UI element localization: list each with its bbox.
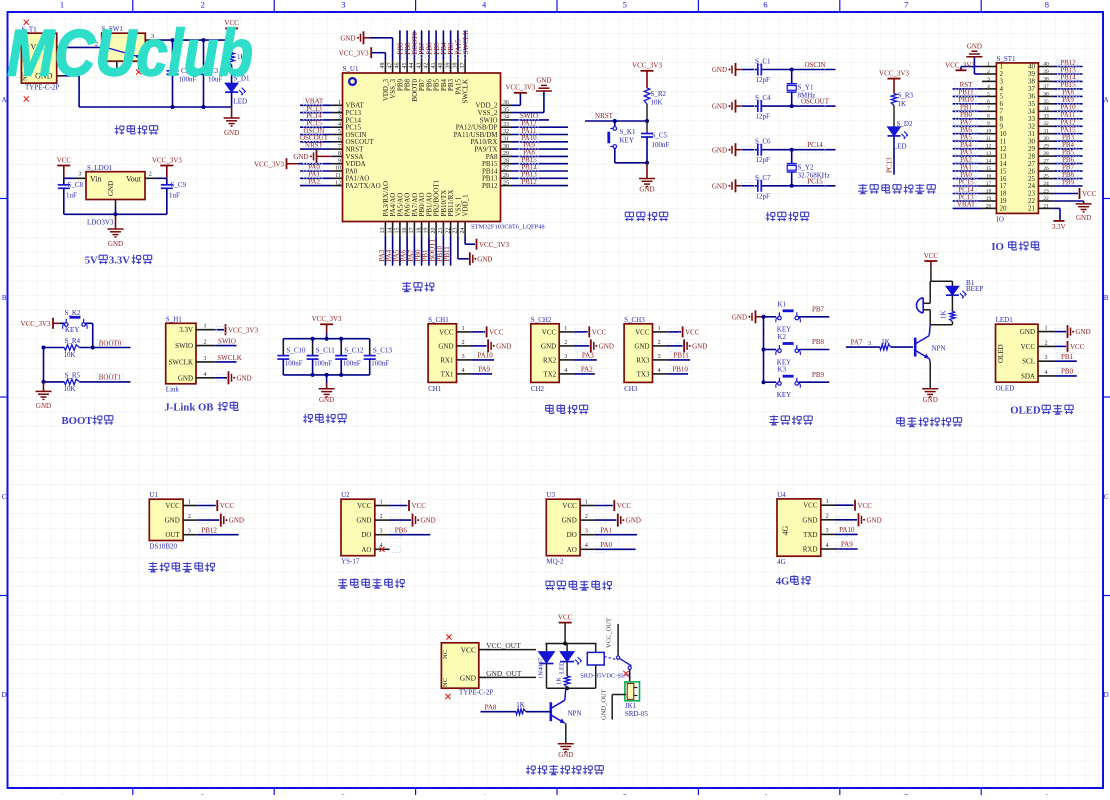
svg-text:40: 40 (1043, 61, 1049, 67)
svg-text:OSCIN: OSCIN (804, 61, 825, 69)
svg-text:3.3V: 3.3V (109, 255, 130, 267)
svg-text:S_C7: S_C7 (755, 174, 771, 182)
svg-text:2: 2 (585, 514, 588, 520)
svg-text:GND: GND (356, 517, 371, 525)
svg-text:45: 45 (402, 63, 408, 69)
svg-text:29: 29 (1043, 144, 1049, 150)
svg-text:VCC: VCC (1021, 343, 1036, 351)
svg-text:40: 40 (438, 63, 444, 69)
svg-text:RX1: RX1 (440, 356, 454, 364)
svg-text:OLED: OLED (997, 344, 1005, 363)
svg-text:35: 35 (1043, 99, 1049, 105)
svg-text:5: 5 (623, 0, 627, 10)
svg-text:PB0: PB0 (1061, 368, 1074, 376)
svg-text:25: 25 (1043, 174, 1049, 180)
svg-text:47: 47 (387, 63, 393, 69)
svg-text:GND: GND (541, 342, 556, 350)
svg-text:VCC: VCC (635, 328, 650, 336)
svg-text:GND: GND (558, 751, 573, 759)
svg-text:4: 4 (1045, 370, 1048, 376)
svg-text:VCC_3V3: VCC_3V3 (632, 62, 662, 70)
svg-text:VCC: VCC (439, 328, 454, 336)
svg-text:4: 4 (204, 372, 207, 378)
svg-text:1uF: 1uF (169, 192, 180, 200)
svg-text:RX2: RX2 (543, 356, 557, 364)
svg-text:PB1: PB1 (1061, 353, 1074, 361)
svg-text:VCC: VCC (685, 329, 700, 337)
svg-text:NC: NC (442, 678, 449, 687)
svg-text:100nF: 100nF (371, 360, 389, 368)
svg-text:VCC: VCC (924, 252, 939, 260)
svg-text:16: 16 (402, 228, 408, 234)
svg-text:2: 2 (826, 514, 829, 520)
svg-text:3: 3 (78, 171, 81, 178)
svg-text:VCC: VCC (558, 613, 573, 621)
svg-text:1: 1 (1045, 326, 1048, 332)
svg-text:1: 1 (204, 324, 207, 330)
svg-text:6: 6 (338, 137, 341, 143)
svg-text:S_R4: S_R4 (65, 337, 81, 345)
svg-text:TXD: TXD (803, 531, 817, 539)
svg-text:S_C9: S_C9 (171, 181, 187, 189)
svg-text:39: 39 (1043, 69, 1049, 75)
svg-text:GND: GND (319, 396, 334, 404)
svg-text:10: 10 (986, 129, 992, 135)
svg-text:1: 1 (585, 499, 588, 505)
svg-text:SRD-05: SRD-05 (625, 710, 648, 718)
svg-text:28: 28 (503, 158, 509, 164)
svg-text:PB12: PB12 (201, 526, 217, 534)
svg-text:CH2: CH2 (531, 385, 545, 393)
svg-text:PA2: PA2 (308, 178, 320, 186)
svg-text:1: 1 (826, 499, 829, 505)
svg-text:PB8: PB8 (812, 338, 825, 346)
svg-text:14: 14 (387, 228, 393, 234)
svg-text:U3: U3 (546, 491, 555, 499)
svg-text:A: A (1104, 96, 1109, 104)
svg-text:KEY: KEY (777, 391, 791, 399)
svg-text:U4: U4 (777, 491, 786, 499)
svg-text:PA0: PA0 (600, 541, 612, 549)
svg-text:8: 8 (987, 114, 990, 120)
svg-text:1: 1 (60, 0, 64, 10)
svg-text:3: 3 (658, 354, 661, 360)
svg-text:2: 2 (149, 171, 152, 178)
svg-text:17: 17 (986, 181, 992, 187)
svg-text:GND: GND (496, 343, 511, 351)
svg-text:J-Link OB: J-Link OB (164, 402, 213, 414)
svg-text:3: 3 (585, 529, 588, 535)
svg-text:27: 27 (1043, 159, 1049, 165)
svg-text:34: 34 (1043, 106, 1049, 112)
svg-text:PA3: PA3 (582, 352, 594, 360)
svg-text:7: 7 (338, 144, 341, 150)
svg-text:8: 8 (1045, 0, 1049, 10)
svg-text:S_C4: S_C4 (755, 94, 771, 102)
svg-text:8MHz: 8MHz (798, 92, 816, 100)
svg-text:IO: IO (991, 241, 1003, 253)
svg-text:PA2: PA2 (581, 366, 593, 374)
svg-text:GND: GND (712, 146, 727, 154)
svg-text:3: 3 (826, 528, 829, 534)
svg-text:MQ-2: MQ-2 (546, 558, 564, 566)
svg-text:11: 11 (335, 173, 341, 179)
svg-text:PB7: PB7 (812, 306, 825, 314)
svg-text:1N4007: 1N4007 (538, 657, 545, 679)
svg-text:CH1: CH1 (428, 385, 442, 393)
svg-text:KEY: KEY (65, 326, 79, 334)
svg-text:22: 22 (445, 228, 451, 234)
svg-text:2: 2 (204, 340, 207, 346)
svg-text:S_CH1: S_CH1 (428, 316, 449, 324)
svg-text:AO: AO (361, 546, 371, 554)
svg-text:36: 36 (503, 100, 509, 106)
svg-text:PA10: PA10 (839, 526, 855, 534)
svg-text:Vin: Vin (90, 174, 102, 183)
svg-text:GND: GND (108, 240, 123, 248)
svg-text:PA8: PA8 (485, 703, 497, 711)
svg-text:VCC: VCC (858, 502, 873, 510)
svg-text:4: 4 (987, 84, 990, 90)
svg-text:30: 30 (503, 144, 509, 150)
svg-text:PB11: PB11 (443, 246, 451, 262)
svg-text:26: 26 (503, 173, 509, 179)
svg-text:9: 9 (987, 121, 990, 127)
svg-text:VCC: VCC (220, 502, 235, 510)
svg-text:12: 12 (986, 144, 992, 150)
svg-text:12: 12 (335, 180, 341, 186)
svg-text:4: 4 (658, 368, 661, 374)
svg-text:24: 24 (1043, 181, 1049, 187)
svg-text:PB10: PB10 (672, 366, 688, 374)
svg-text:BOOT1: BOOT1 (99, 374, 122, 382)
svg-text:GND_OUT: GND_OUT (486, 669, 522, 678)
svg-text:12pF: 12pF (756, 76, 771, 84)
svg-text:1uF: 1uF (66, 192, 77, 200)
svg-text:39: 39 (445, 63, 451, 69)
svg-text:GND: GND (477, 255, 492, 263)
svg-text:JK1: JK1 (625, 702, 637, 710)
svg-text:SCL: SCL (1022, 358, 1035, 366)
svg-text:12pF: 12pF (756, 113, 771, 121)
svg-text:RX3: RX3 (636, 356, 650, 364)
svg-text:GND: GND (639, 186, 654, 194)
svg-text:33: 33 (1043, 114, 1049, 120)
svg-text:S_CH3: S_CH3 (624, 316, 645, 324)
svg-text:19: 19 (424, 228, 430, 234)
svg-text:VCC_3V3: VCC_3V3 (505, 84, 535, 92)
svg-text:5: 5 (987, 91, 990, 97)
svg-text:GND: GND (293, 153, 308, 161)
svg-text:27: 27 (503, 166, 509, 172)
svg-text:2: 2 (658, 340, 661, 346)
svg-text:U1: U1 (149, 491, 158, 499)
svg-text:5: 5 (338, 129, 341, 135)
svg-text:VCC: VCC (1082, 190, 1097, 198)
svg-text:GND: GND (967, 42, 982, 50)
svg-text:GND: GND (692, 343, 707, 351)
svg-text:GND: GND (421, 517, 436, 525)
svg-text:GND: GND (712, 182, 727, 190)
svg-text:32: 32 (503, 129, 509, 135)
svg-text:12pF: 12pF (756, 192, 771, 200)
svg-text:37: 37 (1043, 84, 1049, 90)
svg-text:Vout: Vout (126, 174, 142, 183)
svg-text:6: 6 (763, 0, 767, 10)
svg-text:18: 18 (416, 228, 422, 234)
svg-text:4: 4 (585, 543, 588, 549)
svg-text:VCC_3V3: VCC_3V3 (312, 315, 342, 323)
svg-text:VCC: VCC (592, 329, 607, 337)
svg-text:43: 43 (416, 63, 422, 69)
svg-text:8: 8 (338, 151, 341, 157)
svg-text:1: 1 (188, 499, 191, 505)
svg-text:1: 1 (380, 499, 383, 505)
svg-text:PA7: PA7 (851, 339, 863, 347)
svg-text:5V: 5V (85, 255, 98, 267)
svg-text:21: 21 (1028, 205, 1036, 213)
svg-text:2: 2 (338, 107, 341, 113)
svg-text:VCC: VCC (617, 502, 632, 510)
svg-text:PB9: PB9 (1062, 178, 1075, 186)
svg-text:100nF: 100nF (652, 141, 670, 149)
svg-text:LED: LED (234, 98, 248, 106)
svg-text:NPN: NPN (568, 710, 582, 718)
svg-text:DS18B20: DS18B20 (149, 543, 177, 551)
svg-text:S_C13: S_C13 (373, 347, 393, 355)
svg-text:D: D (1104, 691, 1109, 699)
svg-text:2: 2 (201, 0, 205, 10)
svg-text:K3: K3 (778, 366, 787, 374)
svg-text:PB6: PB6 (395, 526, 408, 534)
svg-text:2: 2 (462, 340, 465, 346)
svg-text:100nF: 100nF (314, 360, 332, 368)
svg-text:RXD: RXD (803, 546, 818, 554)
svg-text:1: 1 (987, 61, 990, 67)
svg-text:20: 20 (986, 203, 992, 209)
svg-text:OLED: OLED (1010, 405, 1041, 417)
svg-text:S_CH2: S_CH2 (531, 316, 552, 324)
svg-text:VCC_3V3: VCC_3V3 (254, 160, 284, 168)
svg-text:S_C11: S_C11 (316, 347, 335, 355)
svg-text:VCC: VCC (489, 329, 504, 337)
svg-text:VDD_1: VDD_1 (462, 194, 470, 217)
svg-text:3: 3 (188, 529, 191, 535)
svg-text:100nF: 100nF (343, 360, 361, 368)
svg-text:4G: 4G (776, 576, 790, 588)
svg-text:PA9: PA9 (478, 366, 490, 374)
svg-text:23: 23 (453, 228, 459, 234)
svg-text:35: 35 (503, 107, 509, 113)
svg-text:1K: 1K (940, 310, 948, 319)
svg-text:3: 3 (987, 76, 990, 82)
svg-text:LED: LED (893, 143, 907, 151)
svg-text:38: 38 (1043, 76, 1049, 82)
svg-text:OLED: OLED (996, 384, 1015, 392)
svg-text:PB9: PB9 (812, 371, 825, 379)
svg-text:SWCLK: SWCLK (217, 354, 242, 362)
svg-text:10K: 10K (651, 99, 663, 107)
svg-text:GND: GND (237, 374, 252, 382)
svg-text:34: 34 (503, 115, 509, 121)
svg-text:20: 20 (431, 228, 437, 234)
svg-text:VCC_3V3: VCC_3V3 (879, 69, 909, 77)
svg-text:36: 36 (1043, 91, 1049, 97)
svg-text:VCC: VCC (562, 502, 577, 510)
svg-text:10: 10 (335, 166, 341, 172)
svg-text:10K: 10K (64, 351, 76, 359)
svg-text:16: 16 (986, 174, 992, 180)
svg-text:10K: 10K (64, 385, 76, 393)
svg-text:C: C (1104, 493, 1109, 501)
svg-text:2: 2 (564, 340, 567, 346)
svg-text:TX2: TX2 (543, 370, 556, 378)
svg-text:30: 30 (1043, 136, 1049, 142)
svg-text:17: 17 (409, 228, 415, 234)
svg-text:GND: GND (1020, 328, 1035, 336)
svg-text:GND: GND (712, 66, 727, 74)
svg-text:MCUclub: MCUclub (7, 16, 253, 90)
svg-text:AO: AO (567, 546, 577, 554)
svg-text:PB12: PB12 (482, 182, 498, 190)
svg-text:GND: GND (107, 181, 115, 196)
svg-text:IO: IO (997, 216, 1004, 224)
svg-text:S_LDO1: S_LDO1 (87, 164, 113, 172)
svg-text:PA10: PA10 (477, 352, 493, 360)
svg-text:VCC: VCC (357, 502, 372, 510)
svg-text:PB11: PB11 (673, 352, 689, 360)
svg-text:GND: GND (802, 516, 817, 524)
svg-text:31: 31 (1043, 129, 1049, 135)
svg-text:23: 23 (1043, 188, 1049, 194)
svg-text:BOOT: BOOT (62, 415, 93, 427)
svg-text:2: 2 (380, 514, 383, 520)
svg-text:LED: LED (559, 661, 566, 674)
svg-text:24: 24 (460, 228, 466, 234)
svg-text:4: 4 (564, 368, 567, 374)
svg-text:29: 29 (503, 151, 509, 157)
svg-text:YS-17: YS-17 (341, 558, 360, 566)
svg-text:3: 3 (380, 529, 383, 535)
svg-text:VCC: VCC (1070, 343, 1085, 351)
svg-text:PC14: PC14 (807, 141, 823, 149)
svg-text:1: 1 (338, 100, 341, 106)
svg-text:4: 4 (826, 543, 829, 549)
svg-text:3: 3 (1045, 355, 1048, 361)
svg-text:VCC: VCC (165, 502, 180, 510)
svg-text:KEY: KEY (620, 137, 634, 145)
svg-text:3: 3 (868, 340, 871, 347)
svg-text:B: B (1104, 294, 1109, 302)
svg-text:GND: GND (536, 77, 551, 85)
svg-text:GND: GND (165, 517, 180, 525)
svg-text:STM32F103C8T6_LQFP48: STM32F103C8T6_LQFP48 (471, 224, 545, 231)
svg-text:1K: 1K (898, 100, 907, 108)
svg-text:C: C (2, 493, 7, 501)
svg-text:A: A (2, 96, 7, 104)
svg-text:3: 3 (338, 115, 341, 121)
svg-text:1K: 1K (516, 701, 525, 709)
svg-text:32.768KHz: 32.768KHz (798, 172, 830, 180)
svg-text:VCC_3V3: VCC_3V3 (479, 241, 509, 249)
svg-text:2: 2 (1045, 340, 1048, 346)
svg-text:GND: GND (229, 517, 244, 525)
svg-text:NRST: NRST (305, 141, 324, 149)
svg-text:37: 37 (460, 63, 466, 69)
svg-text:28: 28 (1043, 151, 1049, 157)
svg-text:31: 31 (503, 137, 509, 143)
svg-text:BOOT0: BOOT0 (99, 339, 122, 347)
svg-text:2: 2 (987, 69, 990, 75)
svg-text:BEEP: BEEP (966, 285, 983, 293)
svg-text:1: 1 (564, 326, 567, 332)
svg-text:S_R5: S_R5 (65, 372, 81, 380)
svg-text:9: 9 (338, 158, 341, 164)
svg-text:PC13: PC13 (885, 157, 893, 173)
svg-text:13: 13 (380, 228, 386, 234)
svg-text:S_C6: S_C6 (755, 138, 771, 146)
svg-text:LED1: LED1 (996, 316, 1014, 324)
svg-text:21: 21 (1043, 203, 1049, 209)
svg-text:VCC: VCC (461, 645, 476, 654)
svg-text:SWIO: SWIO (218, 338, 236, 346)
svg-text:VCC_3V3: VCC_3V3 (228, 326, 258, 334)
svg-text:13: 13 (986, 151, 992, 157)
svg-text:OUT: OUT (165, 531, 180, 539)
svg-text:38: 38 (453, 63, 459, 69)
svg-text:GND: GND (224, 129, 239, 137)
svg-text:VCC_3V3: VCC_3V3 (945, 62, 975, 70)
svg-text:7: 7 (904, 0, 908, 10)
svg-text:S_H1: S_H1 (166, 315, 182, 323)
svg-text:NPN: NPN (932, 345, 946, 353)
svg-text:3: 3 (204, 356, 207, 362)
svg-text:4: 4 (482, 0, 487, 10)
svg-text:GND: GND (923, 396, 938, 404)
svg-text:VCC: VCC (412, 502, 427, 510)
svg-text:GND: GND (712, 103, 727, 111)
svg-text:12pF: 12pF (756, 156, 771, 164)
svg-text:SDA: SDA (1021, 372, 1035, 380)
svg-text:S_R2: S_R2 (651, 90, 667, 98)
svg-text:41: 41 (431, 63, 437, 69)
svg-text:TX1: TX1 (441, 370, 454, 378)
svg-text:GND: GND (732, 313, 747, 321)
svg-text:NRST: NRST (595, 112, 614, 120)
svg-text:3: 3 (462, 354, 465, 360)
svg-text:20: 20 (1000, 205, 1008, 213)
svg-text:4G: 4G (781, 526, 790, 536)
svg-text:SWIO: SWIO (175, 342, 193, 350)
svg-text:S_R3: S_R3 (898, 92, 914, 100)
svg-text:15: 15 (986, 166, 992, 172)
svg-text:14: 14 (986, 159, 992, 165)
svg-text:1: 1 (658, 326, 661, 332)
svg-text:1K: 1K (556, 677, 563, 685)
svg-text:4: 4 (338, 122, 341, 128)
svg-text:DO: DO (361, 531, 371, 539)
svg-text:7: 7 (987, 106, 990, 112)
svg-text:S_U1: S_U1 (343, 65, 359, 73)
svg-text:GND: GND (438, 342, 453, 350)
svg-text:VCC: VCC (803, 502, 818, 510)
svg-text:S_C8: S_C8 (68, 181, 84, 189)
svg-text:100nF: 100nF (285, 360, 303, 368)
svg-text:GND: GND (599, 343, 614, 351)
svg-text:PA1: PA1 (600, 526, 612, 534)
svg-text:3.3V: 3.3V (1052, 223, 1066, 231)
svg-text:K1: K1 (778, 300, 787, 308)
